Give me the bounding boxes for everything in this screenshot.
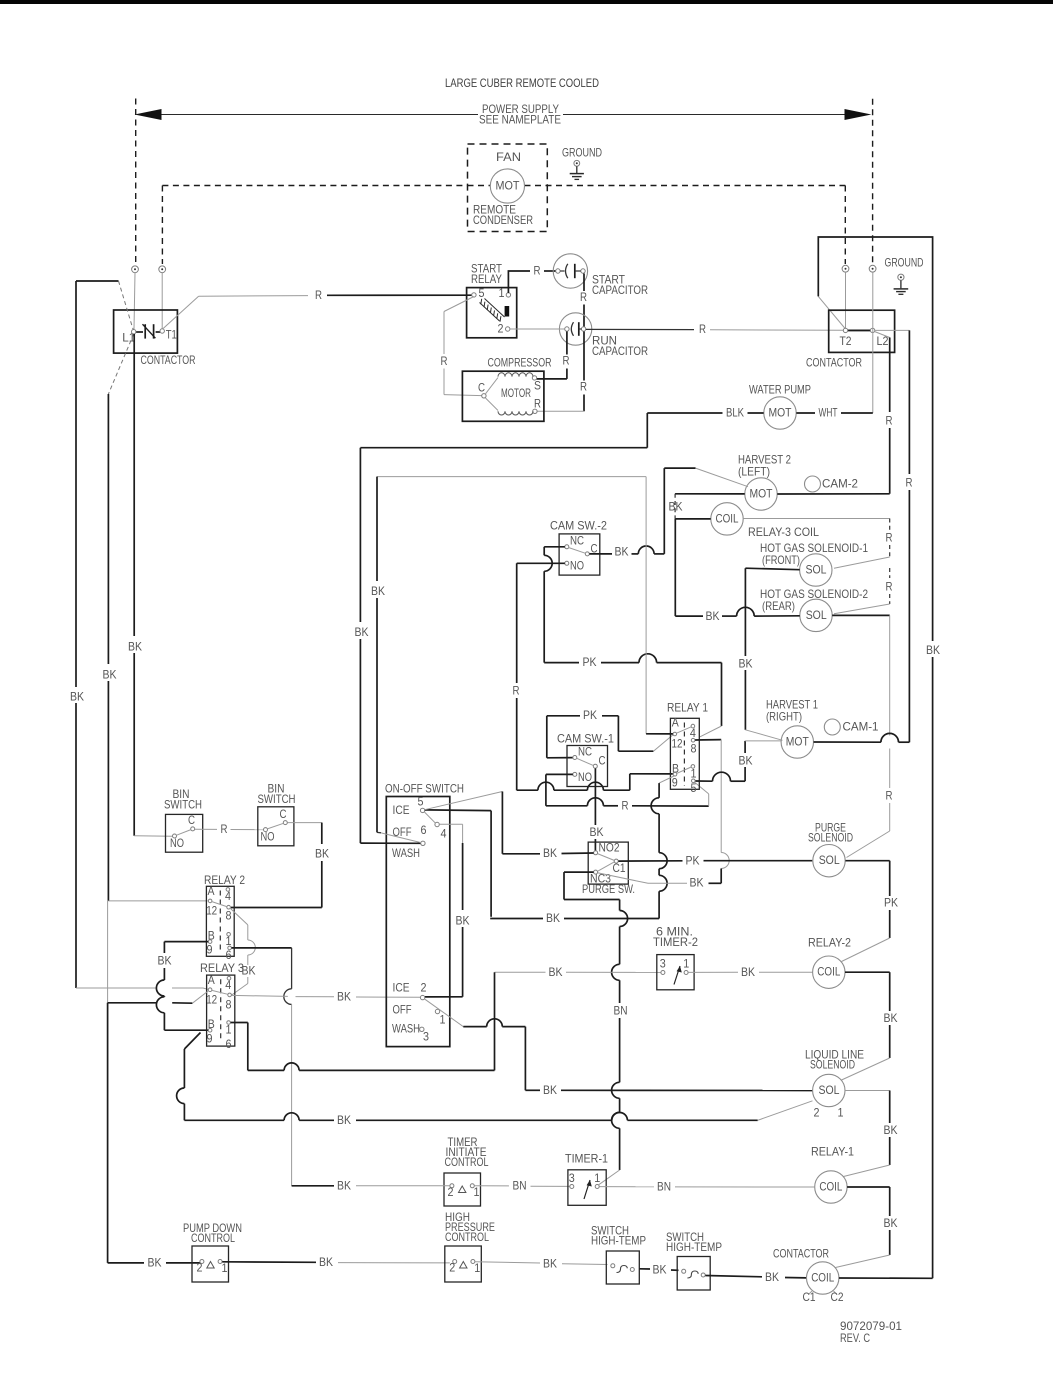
wire T1 diagonal to R wire (163, 296, 308, 329)
svg-text:RELAY-2: RELAY-2 (808, 937, 851, 950)
svg-text:4: 4 (225, 979, 232, 992)
svg-text:5: 5 (691, 782, 697, 795)
wire bin2-C right to x321 (288, 822, 322, 824)
svg-text:BK: BK (884, 1217, 898, 1230)
svg-text:OFF: OFF (393, 826, 412, 839)
svg-text:6: 6 (421, 824, 427, 837)
svg-text:SOL: SOL (819, 854, 840, 867)
wire pump-down feeder x108 (107, 1003, 109, 1263)
relay 1 box (670, 718, 699, 789)
svg-text:REV. C: REV. C (840, 1332, 870, 1345)
wire x494 vertical (494, 972, 496, 1070)
svg-text:BN: BN (657, 1181, 671, 1194)
terminal circle L2 (869, 265, 876, 272)
timer-1 pins (569, 1172, 601, 1189)
svg-text:BK: BK (355, 626, 369, 639)
dashed remote condenser horizontal (162, 185, 467, 187)
wire x108 to relay-2 pin A (108, 900, 207, 902)
svg-text:R: R (580, 381, 587, 394)
svg-text:3: 3 (569, 1172, 575, 1185)
wire R bus y806 to relay1 bottom pin (546, 782, 709, 812)
wire R vertical x889 L2 to harvest-2 (886, 338, 893, 494)
hot gas solenoid-1 SOL (800, 554, 832, 586)
svg-text:SOL: SOL (819, 1084, 840, 1097)
svg-text:R: R (886, 415, 893, 428)
wire PK purge sw C1 to purge solenoid (618, 854, 812, 867)
svg-text:BK: BK (371, 585, 385, 598)
wire BK pump down to high pressure control (222, 1256, 449, 1269)
switch high-temp 2 box (677, 1257, 710, 1291)
wire WHT water pump right (796, 407, 872, 420)
timer-1 clock hand (584, 1180, 592, 1199)
svg-text:CONTACTOR: CONTACTOR (806, 357, 862, 370)
wire BK high pressure to switch high-temp 1 (475, 1257, 607, 1270)
wire harvest2 feed diagonal from y468 (664, 468, 748, 487)
wire dashed riser x675 (674, 494, 676, 519)
compressor R pin (533, 398, 541, 414)
wire x76 to relay-3 pin A (76, 988, 210, 990)
purge switch blades (598, 854, 615, 872)
wire relay-1 coil right to x889 down to contactor coil (836, 1187, 898, 1268)
svg-text:PURGE SW.: PURGE SW. (582, 883, 635, 896)
svg-text:8: 8 (226, 910, 232, 923)
svg-text:1: 1 (440, 1014, 446, 1027)
high pressure pins (449, 1260, 480, 1276)
wire cam1-C down to purge NO2 (590, 768, 604, 850)
fan motor MOT circle (490, 169, 524, 203)
compressor windings (486, 373, 534, 415)
contactor T2-L2 contact bar (848, 329, 871, 331)
compressor box (462, 371, 544, 421)
timer initiate pins (448, 1184, 480, 1199)
power supply dimension arrow (135, 109, 872, 120)
svg-text:6: 6 (226, 1038, 232, 1051)
wire cam2-NO left to x517 (517, 562, 565, 564)
svg-text:C1: C1 (613, 862, 626, 875)
wire start relay pin2 to run cap left pin (510, 328, 565, 330)
svg-text:PK: PK (884, 897, 898, 910)
svg-text:BK: BK (690, 877, 704, 890)
cam sw-2 pin C (585, 543, 597, 556)
wire BK vertical x377 (371, 477, 385, 833)
svg-text:1: 1 (838, 1107, 844, 1120)
svg-text:PK: PK (686, 854, 700, 867)
svg-text:NO: NO (578, 771, 592, 784)
svg-text:BK: BK (543, 847, 557, 860)
relay 2 pins and labels (206, 885, 231, 962)
svg-text:9: 9 (207, 944, 213, 957)
start relay pin 1 (499, 287, 511, 300)
wire x659 down to BK y918 with hop bulges (651, 783, 667, 918)
svg-text:6: 6 (226, 949, 232, 962)
svg-text:BK: BK (319, 1256, 333, 1269)
relay-3 coil circle (711, 503, 743, 535)
svg-text:CONTROL: CONTROL (445, 1231, 489, 1244)
harvest 1 motor (781, 726, 813, 758)
svg-text:1: 1 (683, 958, 689, 971)
wire BK vertical x108 (103, 394, 117, 901)
wire relay-2 coil right to x889 down (842, 972, 898, 1080)
wire relay2 pin6 right to x291 (232, 947, 292, 949)
wire x675 down to sol-2 feed (674, 519, 676, 616)
svg-text:BN: BN (614, 1005, 628, 1018)
svg-text:BK: BK (615, 546, 629, 559)
svg-text:BN: BN (513, 1180, 527, 1193)
pin L2 (870, 328, 888, 348)
svg-text:C2: C2 (831, 1291, 844, 1304)
svg-text:MOTOR: MOTOR (501, 387, 531, 400)
svg-text:5: 5 (479, 287, 485, 300)
wire x134 to bin switch 1 NO (134, 835, 172, 837)
wire R dashed x889 to sol-2 (834, 568, 893, 614)
switch high-temp 2 contacts (682, 1269, 706, 1278)
svg-text:BK: BK (926, 644, 940, 657)
wire x108 lower light segment (107, 901, 109, 1003)
wire x547 down to cam1 NC (547, 716, 573, 758)
wire R run cap right pin to contactor T2 (586, 323, 844, 336)
svg-text:PK: PK (583, 656, 597, 669)
PK wire y716 cam1-NC to relay1 (547, 709, 619, 722)
svg-text:BK: BK (706, 610, 720, 623)
contactor T2-L2 outline wire frame (818, 237, 940, 1278)
wire R start cap right pin down to run cap (580, 274, 587, 327)
wire sol-2 left with hop over x745 (675, 607, 800, 623)
svg-text:R: R (886, 532, 893, 545)
svg-text:9: 9 (672, 777, 678, 790)
cam sw-1 blade (577, 758, 594, 765)
relay-2 coil (813, 956, 845, 988)
svg-text:CAM SW.-2: CAM SW.-2 (550, 520, 607, 533)
cam sw-2 blade (569, 548, 586, 554)
svg-text:NO: NO (570, 560, 584, 573)
relay 3 box (207, 975, 235, 1046)
6 min timer-2 box (657, 955, 694, 990)
svg-text:BLK: BLK (726, 407, 744, 420)
wire heavy y1003 from x107 to relay3 pinA (108, 991, 209, 1004)
svg-text:RELAY 3: RELAY 3 (200, 962, 244, 975)
svg-text:2: 2 (448, 1186, 454, 1199)
wire relay1 pinB diagonal to x659 (659, 776, 675, 784)
wire BK vertical x76 (70, 281, 84, 988)
svg-text:1: 1 (474, 1262, 480, 1275)
bin switch 2 pin C (280, 808, 288, 825)
svg-text:BK: BK (148, 1257, 162, 1270)
svg-text:A: A (208, 885, 215, 898)
wire relay3 pin9 diagonal to x184 (177, 1033, 201, 1121)
wire cam1-NO left drop x546 (546, 774, 573, 805)
cam sw-1 pin NO (573, 771, 592, 784)
svg-text:WASH: WASH (392, 847, 420, 860)
svg-text:BK: BK (546, 912, 560, 925)
svg-text:BK: BK (337, 1114, 351, 1127)
wire R dashed x889 to solenoids (834, 519, 893, 569)
dashed remote condenser vertical T2 side (844, 186, 846, 265)
cam-2 circle (805, 476, 859, 492)
svg-text:(LEFT): (LEFT) (738, 466, 770, 479)
wire BK bus y1120 to liquid line solenoid (184, 1101, 812, 1127)
svg-text:12: 12 (672, 738, 683, 751)
pin T1 (160, 329, 164, 333)
bin switch 2 pin NO (261, 828, 275, 844)
svg-text:BK: BK (884, 1012, 898, 1025)
wire PK drop x721 to relay1 pin 8 (700, 663, 722, 737)
wire BK bus y447 (360, 447, 647, 449)
svg-text:LARGE CUBER REMOTE COOLED: LARGE CUBER REMOTE COOLED (445, 77, 599, 90)
svg-text:CONTROL: CONTROL (445, 1156, 489, 1169)
svg-text:NO2: NO2 (599, 842, 620, 855)
svg-text:BK: BK (739, 755, 753, 768)
wire contactor coil right to x932 (839, 1277, 933, 1279)
svg-text:BK: BK (337, 990, 351, 1003)
wire L2 diagonal to R drop (875, 332, 890, 338)
wire relay1 pin5 right to x745 (696, 767, 746, 781)
svg-text:CAPACITOR: CAPACITOR (592, 345, 648, 358)
svg-text:COIL: COIL (811, 1272, 834, 1285)
svg-text:(REAR): (REAR) (762, 600, 795, 613)
liquid line solenoid SOL (813, 1074, 845, 1119)
bin switch 2 blade (267, 823, 283, 829)
svg-text:12: 12 (206, 994, 217, 1007)
wire purge solenoid right to x889 (846, 860, 890, 862)
wire x291 down to timer initiate (284, 948, 292, 1186)
wire sol-1 left to x745 (745, 568, 799, 570)
svg-text:ICE: ICE (393, 804, 410, 817)
cam sw-2 box (559, 534, 600, 575)
start relay coil hatched band (480, 299, 505, 322)
svg-text:BK: BK (543, 1084, 557, 1097)
fan motor dashed enclosure (468, 144, 548, 232)
compressor S pin (532, 376, 541, 393)
svg-text:BK: BK (70, 691, 84, 704)
svg-text:BK: BK (765, 1271, 779, 1284)
svg-text:BK: BK (741, 966, 755, 979)
high pressure control box (445, 1246, 482, 1282)
svg-text:BK: BK (590, 826, 604, 839)
wire relay1 pinA left to x646 (646, 733, 673, 735)
bin switch 1 blade (176, 830, 191, 836)
svg-text:RELAY: RELAY (471, 273, 502, 286)
svg-text:MOT: MOT (769, 407, 792, 420)
wire BK y883 to x721 (648, 872, 721, 890)
svg-text:4: 4 (225, 890, 232, 903)
wire blade tip to x525 with hop (463, 1019, 525, 1091)
svg-text:1: 1 (226, 1024, 232, 1037)
relay 1 pins and labels (672, 717, 697, 795)
svg-text:SOLENOID: SOLENOID (808, 832, 853, 845)
svg-text:C: C (188, 814, 195, 827)
bin switch 2 box (258, 807, 294, 846)
on-off pin 6 row (381, 824, 427, 846)
svg-text:2: 2 (814, 1107, 820, 1120)
wire BK riser x664 to harvest2 (664, 468, 682, 554)
purge switch pin NC3 (590, 870, 611, 885)
svg-text:BK: BK (337, 1179, 351, 1192)
svg-text:HIGH-TEMP: HIGH-TEMP (591, 1235, 646, 1248)
svg-text:PK: PK (583, 709, 597, 722)
pump down pins (197, 1260, 228, 1276)
wire start relay pin1 up to R (508, 271, 530, 293)
wire R bus y790 with hops (517, 782, 630, 790)
wire harvest1 right bus y742 with hop (814, 733, 910, 742)
on-off pin 1 (393, 1004, 446, 1027)
svg-text:NO: NO (261, 831, 275, 844)
svg-text:5: 5 (418, 796, 424, 809)
svg-text:CONTROL: CONTROL (191, 1232, 235, 1245)
svg-text:1: 1 (222, 1262, 228, 1275)
scan top black bar (0, 0, 1053, 4)
svg-text:CAM-2: CAM-2 (822, 478, 858, 491)
wire R bin1-C to bin2-NO (195, 823, 263, 836)
cam-1 circle (824, 719, 878, 735)
wire BN vertical x619 (599, 900, 628, 1185)
svg-text:BK: BK (653, 1263, 667, 1276)
svg-text:S: S (534, 380, 541, 393)
wire L1 diagonal down to x108 (108, 334, 133, 394)
water pump motor (764, 397, 796, 429)
harvest 2 motor (745, 478, 777, 510)
cam sw-1 box (567, 746, 608, 787)
wire R run cap right pin down to compressor R (537, 332, 587, 412)
svg-text:BK: BK (158, 955, 172, 968)
wire start relay pin5 blade to compressor C (441, 297, 482, 396)
svg-text:2: 2 (498, 323, 504, 336)
compressor C pin (478, 382, 486, 398)
svg-text:BK: BK (739, 658, 753, 671)
wire WHT vertical L2 to water pump (872, 272, 874, 413)
svg-text:C1: C1 (803, 1291, 816, 1304)
svg-text:NC: NC (570, 535, 584, 548)
wire BK x321 down to relay2 pin 8 (231, 823, 329, 908)
timer-1 box (568, 1170, 606, 1206)
svg-text:8: 8 (691, 743, 697, 756)
wire BLK water pump left (647, 407, 763, 420)
svg-text:NC: NC (578, 746, 592, 759)
wire cam2-C right BK to x664 (589, 546, 664, 559)
svg-text:L2: L2 (877, 335, 889, 348)
wire BK x291 to timer initiate (292, 1179, 450, 1192)
svg-text:R: R (221, 823, 228, 836)
switch high-temp 1 box (606, 1251, 639, 1284)
svg-text:COIL: COIL (716, 513, 739, 526)
cam sw-2 pin NO (565, 560, 584, 573)
hot gas solenoid-2 SOL (800, 599, 832, 631)
svg-text:COIL: COIL (817, 966, 840, 979)
svg-text:R: R (580, 291, 587, 304)
svg-text:SOL: SOL (806, 564, 827, 577)
start relay pin 2 (498, 323, 510, 336)
wire BK to pump down control (108, 1257, 200, 1270)
wire BN timer-1 pin1 to relay-1 coil (599, 1181, 814, 1194)
terminal circle L1 (132, 266, 139, 329)
wire PK bus y662 (544, 654, 721, 669)
svg-text:FAN: FAN (496, 151, 521, 164)
svg-text:CONTACTOR: CONTACTOR (773, 1248, 829, 1261)
svg-text:C: C (478, 382, 485, 395)
svg-text:1: 1 (594, 1172, 600, 1185)
wire liquid line sol right to x889 (844, 1091, 898, 1177)
svg-text:RELAY-1: RELAY-1 (811, 1146, 854, 1159)
wire R run cap left pin down to compressor S (537, 332, 570, 379)
wire x502 drop from blade to BK y854 (501, 792, 503, 854)
svg-text:CONDENSER: CONDENSER (473, 214, 533, 227)
contactor coil terminals C1 C2 (803, 1291, 844, 1304)
wire BK y1090 to liquid line solenoid (525, 1084, 812, 1097)
svg-text:MOT: MOT (496, 180, 520, 193)
wire x745 lower BK to harvest1 mot (739, 741, 782, 768)
wire NC3 loop to BN drop (564, 872, 620, 899)
svg-text:(FRONT): (FRONT) (762, 554, 800, 567)
wire left feeder corner to L1 (76, 281, 133, 330)
svg-text:R: R (622, 799, 629, 812)
relay-1 coil (815, 1171, 847, 1203)
svg-text:BK: BK (549, 966, 563, 979)
cam sw-2 pin NC (565, 535, 584, 549)
wire L2 to x909 drop (875, 329, 910, 331)
on-off pin 5 row (393, 792, 503, 824)
svg-text:GROUND: GROUND (562, 147, 602, 160)
svg-text:1: 1 (499, 287, 505, 300)
svg-text:BK: BK (456, 915, 470, 928)
purge switch pin C1 (613, 859, 626, 875)
svg-text:C: C (280, 808, 287, 821)
svg-text:SWITCH: SWITCH (258, 793, 296, 806)
bin switch 1 box (166, 814, 203, 852)
wire BK vertical x360 to on-off pin 6 (355, 448, 421, 844)
svg-text:COMPRESSOR: COMPRESSOR (488, 357, 552, 370)
svg-text:CAM-1: CAM-1 (843, 721, 879, 734)
svg-text:BK: BK (103, 669, 117, 682)
wire BK x462 pin4 to pin2 (425, 824, 470, 997)
wire x491 drop from pin5 row to BK y918 (490, 811, 659, 925)
svg-text:RELAY 1: RELAY 1 (667, 702, 708, 715)
svg-text:SEE NAMEPLATE: SEE NAMEPLATE (479, 114, 561, 127)
on-off switch box (386, 797, 450, 1047)
svg-text:R: R (513, 685, 520, 698)
wire BK vertical x134 from L1 (128, 334, 142, 836)
svg-text:R: R (441, 355, 448, 368)
svg-text:BK: BK (315, 848, 329, 861)
svg-text:TIMER-2: TIMER-2 (653, 936, 698, 949)
contactor L1-T1 box (114, 310, 178, 353)
svg-text:R: R (699, 323, 706, 336)
bin switch 1 pin NO (170, 834, 184, 850)
wire R vertical x517 (513, 563, 520, 790)
svg-text:RELAY-3 COIL: RELAY-3 COIL (748, 526, 820, 539)
wire relay1 pin8 right to x721 (695, 740, 729, 872)
relay 3 pins and labels (206, 974, 232, 1051)
terminal circle T1 (159, 266, 166, 329)
wire sol-2 right to x889 (832, 614, 890, 616)
cam sw-1 pin C (593, 755, 605, 769)
purge solenoid SOL (813, 845, 845, 877)
svg-text:R: R (534, 265, 541, 278)
svg-text:WASH: WASH (392, 1023, 420, 1036)
svg-text:T2: T2 (840, 335, 852, 348)
purge switch pin NO2 (594, 842, 620, 855)
svg-text:R: R (906, 477, 913, 490)
on-off pin 4 (435, 822, 463, 840)
wire relay3 pin8 right BK to on-off pin2 (231, 990, 420, 1003)
svg-text:C: C (599, 755, 606, 768)
svg-text:TIMER-1: TIMER-1 (565, 1153, 608, 1166)
wire harvest2 bottom bus y494 (675, 493, 890, 495)
svg-text:OFF: OFF (393, 1004, 412, 1017)
svg-text:CAPACITOR: CAPACITOR (592, 284, 648, 297)
wire PK x889 down to relay-2 coil (842, 861, 899, 962)
wire relay3 pin1 right down to y1070 (231, 1023, 248, 1071)
bin switch 1 pin C (188, 814, 195, 831)
wire BK timer-2 pin1 to relay-2 coil (688, 966, 812, 979)
